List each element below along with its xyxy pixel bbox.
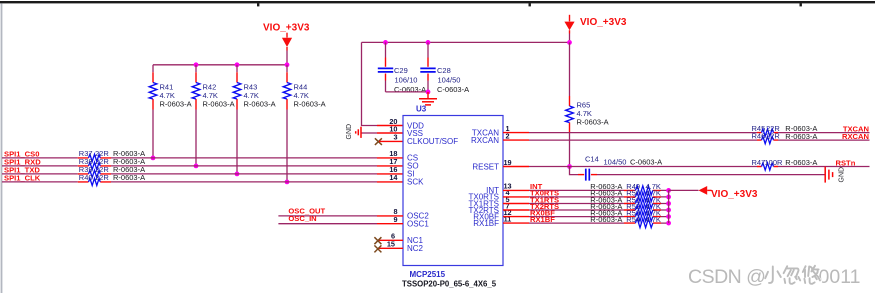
wire SPI1_CS0 (2, 157, 377, 159)
resistor R46 (752, 132, 818, 144)
pin 8 OSC2 stub (377, 215, 403, 217)
pin 13 INT stub (503, 189, 529, 191)
wire VIO vertical to bus (left) (286, 51, 288, 65)
svg-text:RXCAN: RXCAN (842, 132, 869, 141)
resistor R53 (590, 208, 661, 221)
wire R44 to SPI1_CLK (286, 110, 288, 182)
svg-text:R-0603-A: R-0603-A (294, 100, 326, 109)
pin 10 VSS stub (377, 132, 403, 134)
wire OSC_OUT (278, 215, 377, 217)
svg-text:R-0603-A: R-0603-A (590, 215, 622, 224)
svg-text:GND: GND (346, 124, 353, 140)
node bus/C28 (426, 40, 431, 45)
node cap ground junction (426, 90, 431, 95)
wire SPI1_RXD (2, 165, 377, 167)
pin 14 SCK stub (78, 181, 403, 183)
svg-text:CLKOUT/SOF: CLKOUT/SOF (407, 137, 458, 146)
resistor R37 (79, 149, 145, 161)
node R44/SCK junction (285, 180, 290, 185)
svg-text:14: 14 (389, 173, 398, 182)
svg-text:R-0603-A: R-0603-A (785, 132, 817, 141)
svg-text:4.7K: 4.7K (203, 91, 218, 100)
resistor R38 (79, 157, 145, 169)
svg-text:OSC1: OSC1 (407, 220, 429, 229)
svg-text:RX1BF: RX1BF (473, 219, 499, 228)
svg-text:R-0603-A: R-0603-A (203, 100, 235, 109)
svg-text:22R: 22R (766, 132, 780, 141)
no-connect X on CLKOUT/SOF pin 3 (375, 138, 382, 145)
svg-text:4.7K: 4.7K (294, 91, 309, 100)
wire R65 to RESET net (569, 133, 571, 167)
ground GND (right of C14) (825, 167, 845, 183)
svg-text:VIO_+3V3: VIO_+3V3 (711, 189, 758, 200)
capacitor C14 (570, 155, 663, 181)
wire VDD top bus (362, 41, 570, 43)
svg-text:R46: R46 (752, 132, 766, 141)
power symbol VIO_+3V3 (top right) (564, 15, 626, 34)
no-connect X on NC1 (374, 237, 381, 244)
svg-text:U3: U3 (416, 104, 427, 113)
pin 19 RESET stub (503, 166, 529, 168)
svg-text:NC2: NC2 (407, 244, 424, 253)
wire VDD vertical (362, 42, 378, 125)
wire VIO top-right to bus (569, 34, 571, 43)
node RESET junction (567, 164, 572, 169)
resistor R40 (79, 173, 145, 185)
wire SPI1_CLK (2, 181, 377, 183)
svg-text:TSSOP20-P0_65-6_4X6_5: TSSOP20-P0_65-6_4X6_5 (402, 280, 497, 289)
svg-text:R54: R54 (626, 215, 640, 224)
svg-text:4.7K: 4.7K (646, 215, 661, 224)
svg-text:R40: R40 (79, 173, 93, 182)
resistor R39 (79, 165, 145, 177)
frame top border (0, 1, 875, 6)
svg-text:OSC_IN: OSC_IN (288, 214, 316, 223)
node R43/SI junction (235, 172, 240, 177)
resistor R49 (590, 182, 661, 195)
capacitor C29 (378, 42, 426, 93)
node TX0RTS pull-up junction (666, 195, 671, 200)
node R41/CS junction (151, 156, 156, 161)
svg-text:RSTn: RSTn (836, 158, 856, 167)
resistor R47 (752, 158, 818, 170)
pin 2 RXCAN stub (503, 139, 529, 141)
svg-text:GND: GND (838, 167, 845, 183)
node bus/VIO (567, 40, 572, 45)
node bus junction R42 (194, 62, 199, 67)
pin 20 VDD stub (377, 125, 403, 127)
wire RESET (529, 166, 870, 168)
power symbol VIO_+3V3 (right, arrow left) (699, 186, 758, 200)
svg-text:CSDN @: CSDN @ (688, 266, 765, 288)
node R42/SO junction (194, 164, 199, 169)
svg-text:VIO_+3V3: VIO_+3V3 (263, 23, 310, 34)
wire R42 to SPI1_RXD (195, 110, 197, 166)
pin 12 RX0BF stub (503, 216, 529, 218)
wire INT (529, 189, 669, 191)
pin 6 NC1 stub (378, 239, 403, 241)
node bus junction R44 (285, 62, 290, 67)
svg-text:3: 3 (393, 133, 397, 142)
pin 11 RX1BF stub (503, 222, 529, 224)
node bus/C29 (383, 40, 388, 45)
svg-text:C14: C14 (585, 155, 599, 164)
svg-text:RESET: RESET (472, 162, 499, 171)
svg-text:R-0603-A: R-0603-A (785, 158, 817, 167)
resistor R54 (590, 215, 661, 228)
wire TXCAN (529, 132, 870, 134)
pin 7 TX2RTS stub (503, 209, 529, 211)
resistor R50 (590, 189, 661, 202)
svg-text:104/50: 104/50 (438, 75, 461, 84)
svg-text:R-0603-A: R-0603-A (113, 173, 145, 182)
pin 4 TX0RTS stub (503, 196, 529, 198)
node TX1RTS pull-up junction (666, 201, 671, 206)
svg-text:4.7K: 4.7K (160, 91, 175, 100)
svg-text:C-0603-A: C-0603-A (630, 157, 662, 166)
wire C14 to GND (597, 174, 825, 176)
wire R43 to SPI1_TXD (236, 110, 238, 174)
resistor R45 (752, 124, 818, 136)
wire TX0RTS (529, 196, 669, 198)
pin 9 OSC1 stub (377, 223, 403, 225)
pin 1 TXCAN stub (503, 132, 529, 134)
wire pull-up bus (153, 64, 287, 66)
wire RXCAN (529, 139, 870, 141)
svg-text:R-0603-A: R-0603-A (160, 100, 192, 109)
svg-text:100R: 100R (765, 158, 784, 167)
svg-text:R-0603-A: R-0603-A (244, 100, 276, 109)
svg-text:106/10: 106/10 (395, 75, 418, 84)
wire TX1RTS (529, 203, 669, 205)
svg-text:SPI1_CLK: SPI1_CLK (4, 173, 41, 182)
wire pull-up vertical bus (668, 190, 670, 223)
resistor R44 (283, 65, 325, 110)
pin 15 NC2 stub (378, 247, 403, 249)
wire RX0BF (529, 216, 669, 218)
pin 5 TX1RTS stub (503, 203, 529, 205)
svg-text:19: 19 (503, 158, 511, 167)
svg-text:SCK: SCK (407, 178, 424, 187)
frame left border (1, 3, 3, 293)
svg-text:C28: C28 (437, 66, 451, 75)
resistor R52 (590, 202, 661, 215)
node INT pull-up junction (666, 188, 671, 193)
resistor R42 (192, 65, 234, 110)
wire SPI1_TXD (2, 173, 377, 175)
ground GND (left of VSS) (346, 124, 377, 140)
power symbol VIO_+3V3 (left) (263, 23, 310, 51)
svg-text:RXCAN: RXCAN (471, 136, 499, 145)
svg-text:0011: 0011 (819, 266, 861, 288)
pin 17 SO stub (78, 165, 403, 167)
pin 18 CS stub (78, 157, 403, 159)
wire OSC_IN (278, 223, 377, 225)
svg-text:4.7K: 4.7K (577, 109, 592, 118)
wire INT to VIO arrow (669, 189, 699, 191)
node bus junction R43 (235, 62, 240, 67)
node TX2RTS pull-up junction (666, 208, 671, 213)
resistor R43 (233, 65, 275, 110)
svg-text:4.7K: 4.7K (244, 91, 259, 100)
pin 3 CLKOUT stub (379, 140, 403, 142)
svg-text:R47: R47 (752, 158, 766, 167)
node RX0BF pull-up junction (666, 214, 671, 219)
pin 16 SI stub (78, 173, 403, 175)
svg-text:C29: C29 (394, 66, 408, 75)
watermark CSDN (688, 266, 862, 289)
svg-text:MCP2515: MCP2515 (410, 270, 446, 279)
resistor R51 (590, 195, 661, 208)
wire C29 to C28 bottoms (386, 91, 429, 93)
wire RX1BF (529, 222, 669, 224)
svg-text:22R: 22R (95, 173, 109, 182)
svg-text:C-0603-A: C-0603-A (437, 85, 469, 94)
node RX1BF pull-up corner (666, 221, 671, 226)
resistor R41 (149, 65, 191, 110)
ground (earth) under caps (419, 92, 437, 105)
wire TX2RTS (529, 209, 669, 211)
capacitor C28 (420, 42, 469, 93)
no-connect X on NC2 (374, 245, 381, 252)
watermark CJK glyphs (765, 266, 821, 285)
svg-text:11: 11 (504, 214, 512, 223)
svg-text:104/50: 104/50 (604, 157, 627, 166)
resistor R65 (566, 42, 609, 132)
svg-text:VIO_+3V3: VIO_+3V3 (580, 17, 627, 28)
IC U1 MCP2515 body (403, 116, 503, 266)
wire R41 to SPI1_CS0 (152, 110, 154, 158)
svg-text:R-0603-A: R-0603-A (577, 118, 609, 127)
